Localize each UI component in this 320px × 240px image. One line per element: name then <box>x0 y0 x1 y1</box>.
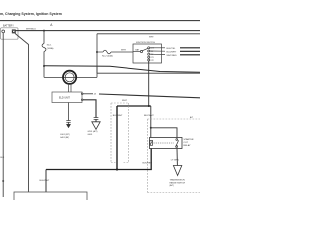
connector ticks <box>94 117 99 119</box>
svg-text:No.1: No.1 <box>47 45 52 47</box>
svg-text:RELAY: RELAY <box>184 144 192 147</box>
starter motor box <box>14 192 87 204</box>
svg-text:TRANSMISSION: TRANSMISSION <box>170 179 186 182</box>
ELD current sensor ring <box>63 71 76 84</box>
wire ELD loop right side <box>96 67 98 78</box>
terminal column <box>148 47 150 49</box>
battery negative terminal <box>2 30 5 33</box>
under-hood fuse box bottom edge <box>97 72 200 74</box>
ground triangle open <box>92 122 100 130</box>
node bus junction <box>116 168 118 170</box>
wire ST drop from ignition switch <box>148 61 150 106</box>
node junction main <box>43 65 45 67</box>
svg-text:BLK/WHT: BLK/WHT <box>40 180 50 182</box>
svg-text:IGNITION SWITCH: IGNITION SWITCH <box>136 42 155 44</box>
svg-text:LT GRN: LT GRN <box>171 159 179 161</box>
wire main bus tilted to right edge <box>44 66 200 73</box>
wire ELD loop left <box>43 66 45 77</box>
wire BLK/WHT thick from ST junction going left <box>117 105 151 107</box>
wire bus drop to starter <box>45 170 47 193</box>
svg-text:BLK/RED: BLK/RED <box>143 163 153 165</box>
svg-text:G401 (AT): G401 (AT) <box>60 136 70 139</box>
svg-text:BAT: BAT <box>135 49 140 52</box>
ignition switch box <box>133 44 162 63</box>
battery box <box>1 28 19 39</box>
wire BLK/WHT thick down <box>116 106 118 170</box>
wire ACC out <box>150 53 165 55</box>
svg-text:STARTER: STARTER <box>184 138 194 141</box>
terminal BAT <box>140 50 142 52</box>
wire ELD unit ground <box>68 103 70 121</box>
svg-text:(A/T): (A/T) <box>170 184 175 187</box>
svg-text:A/T: A/T <box>190 116 194 119</box>
wire relay output to starter bus <box>46 149 151 170</box>
fuse No.2 40A <box>103 50 111 54</box>
terminal ELD out 1 <box>81 93 83 95</box>
svg-text:WHT: WHT <box>122 100 128 102</box>
svg-text:G401: G401 <box>88 134 94 136</box>
svg-text:BLU/WHT: BLU/WHT <box>167 51 178 53</box>
wire W1 battery positive to right edge <box>15 30 200 32</box>
svg-text:+B: +B <box>94 94 97 96</box>
node junction on W1 <box>43 30 45 32</box>
relay linkage dashed <box>154 142 175 144</box>
wire jumper to coil terminal <box>151 128 177 138</box>
svg-text:G101 (MT): G101 (MT) <box>60 134 70 136</box>
svg-text:(100A): (100A) <box>47 47 54 50</box>
wire fuse drop from W1 <box>43 31 45 44</box>
svg-text:BLK/WHT: BLK/WHT <box>144 115 154 117</box>
terminal ELD out 2 <box>81 99 83 101</box>
switch blade <box>143 48 148 50</box>
wire IG2 out <box>150 50 165 52</box>
node on box edge for fuse 2 <box>96 51 98 53</box>
wire ELD output WHT to right edge <box>83 93 93 95</box>
svg-text:CUT: CUT <box>184 142 189 144</box>
connector triangle to transmission range switch <box>173 166 181 176</box>
svg-text:WHT: WHT <box>149 36 154 38</box>
wire battery negative down <box>2 33 4 197</box>
harness dashed box <box>111 103 129 163</box>
relay coil <box>150 141 153 146</box>
svg-text:G201 (A/T): G201 (A/T) <box>88 130 98 133</box>
svg-text:ACC: ACC <box>150 47 154 50</box>
svg-text:WHT: WHT <box>121 50 127 52</box>
svg-text:m, Charging System, Ignition S: m, Charging System, Ignition System <box>0 12 62 16</box>
svg-text:A: A <box>50 23 53 27</box>
fusible link No.1 100A <box>42 44 46 52</box>
wire sensor stubs to ELD unit <box>68 84 70 92</box>
svg-text:ELD UNIT: ELD UNIT <box>59 97 70 100</box>
node jumper <box>150 127 152 129</box>
svg-text:No.2 (40A): No.2 (40A) <box>102 54 113 57</box>
svg-text:BATTERY: BATTERY <box>3 25 14 28</box>
relay contact <box>176 139 178 141</box>
svg-text:WHT/RED: WHT/RED <box>167 55 178 57</box>
svg-text:BLK/WHT: BLK/WHT <box>113 115 123 117</box>
title underline <box>0 20 200 22</box>
ELD unit box <box>52 92 82 103</box>
starter cut relay box <box>150 138 183 149</box>
wire fuse2 to ignition switch <box>111 51 133 53</box>
svg-text:BLK: BLK <box>0 157 4 159</box>
node dot on negative cable <box>2 180 4 182</box>
under-hood fuse box left edge <box>96 34 98 73</box>
wire battery positive cable diagonal to starter <box>15 33 29 192</box>
wire relay feed down <box>150 106 152 138</box>
wire IG1 out <box>150 47 165 49</box>
wire fuse to junction <box>43 52 45 67</box>
ground triangle small filled <box>66 124 70 128</box>
node relay feed junction <box>148 105 150 107</box>
svg-text:WHT/BLU: WHT/BLU <box>26 28 36 30</box>
dashed box A/T region <box>148 119 201 193</box>
wire ELD loop bottom through sensor <box>44 76 97 78</box>
under-hood fuse box top edge <box>97 33 200 35</box>
wire to fuse No.2 <box>97 51 103 53</box>
battery positive terminal <box>12 30 15 33</box>
svg-text:ST2: ST2 <box>150 60 153 62</box>
wire box edge to BAT <box>133 51 140 53</box>
svg-text:ST1: ST1 <box>150 57 153 59</box>
wire coil to range switch <box>176 149 178 166</box>
wire ELD output 2 <box>83 100 96 118</box>
svg-text:BLK/YEL: BLK/YEL <box>167 48 177 50</box>
svg-text:RANGE SWITCH: RANGE SWITCH <box>170 181 186 184</box>
